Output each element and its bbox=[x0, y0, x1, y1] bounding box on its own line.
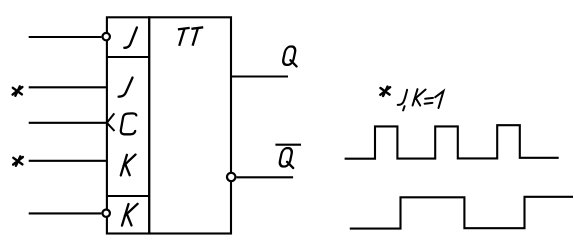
label Q-bar (output) bbox=[279, 148, 293, 168]
wire input J bbox=[29, 86, 107, 88]
dynamic input chevron on C bbox=[107, 113, 115, 131]
asterisk at J input bbox=[13, 86, 23, 95]
label C bbox=[121, 113, 136, 134]
inversion circle on S input bbox=[103, 33, 110, 40]
inversion circle on R input bbox=[103, 210, 110, 217]
label K (middle section) bbox=[121, 155, 136, 176]
label J (top async box) bbox=[124, 27, 137, 47]
wire input C bbox=[29, 122, 107, 124]
asterisk at timing note bbox=[380, 87, 390, 96]
overline of Q-bar label bbox=[275, 144, 301, 146]
inversion circle on Q-bar output bbox=[227, 173, 235, 181]
wire output Q-bar bbox=[236, 176, 293, 178]
label J (middle section) bbox=[119, 78, 133, 97]
wire input R (bottom, to inverting input) bbox=[29, 212, 102, 214]
label TT bbox=[178, 27, 203, 46]
asterisk at K input bbox=[13, 156, 23, 165]
wire output Q bbox=[231, 75, 288, 77]
label K (bottom async box) bbox=[122, 204, 138, 226]
divider bottom (above K reset box) bbox=[107, 195, 149, 197]
wire input S (top, to inverting input) bbox=[29, 36, 102, 38]
waveform Q (output) bbox=[350, 197, 573, 229]
waveform C (clock) bbox=[345, 125, 559, 159]
label J,K=1 bbox=[398, 89, 444, 110]
wire input K bbox=[29, 160, 107, 162]
input section box bbox=[107, 17, 149, 233]
flip-flop body U1 bbox=[149, 17, 231, 233]
label Q (output) bbox=[282, 47, 296, 67]
divider top (below J set box) bbox=[107, 56, 149, 58]
